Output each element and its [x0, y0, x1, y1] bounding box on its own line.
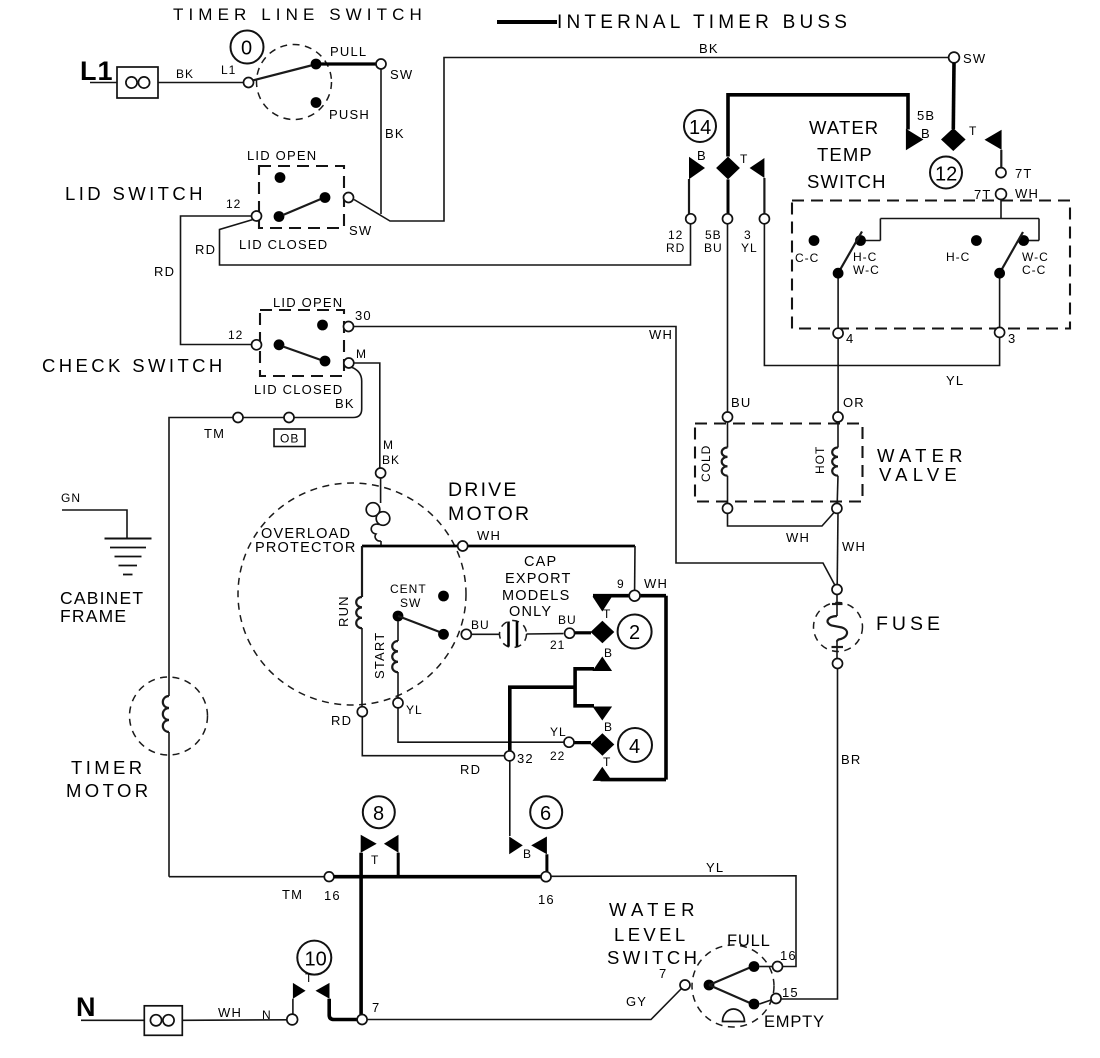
svg-text:2: 2 — [629, 622, 640, 644]
blade to EMPTY — [709, 985, 750, 1003]
svg-text:22: 22 — [550, 749, 565, 763]
drive motor enclosure — [238, 483, 466, 705]
wire YL bus to water level 16 — [551, 876, 796, 967]
svg-text:7T: 7T — [1015, 166, 1033, 181]
terminal 15 (water level) — [760, 1000, 772, 1004]
svg-text:LID CLOSED: LID CLOSED — [239, 237, 328, 252]
wire WH valve to fuse node — [836, 514, 839, 585]
wire to terminal 4 — [837, 279, 839, 329]
svg-text:LID OPEN: LID OPEN — [273, 295, 343, 310]
svg-text:15: 15 — [782, 985, 799, 1000]
svg-text:6: 6 — [540, 803, 551, 825]
ground GN / cabinet frame — [61, 491, 152, 575]
wire SW to contact 12 (timer buss) — [951, 63, 955, 129]
svg-text:YL: YL — [741, 241, 758, 255]
svg-text:VALVE: VALVE — [879, 464, 962, 485]
connector OB — [284, 413, 294, 423]
terminal 5B BU — [723, 214, 733, 224]
lid open contact — [275, 172, 286, 183]
temp switch blade (left) — [838, 232, 862, 274]
svg-text:WH: WH — [842, 539, 866, 554]
svg-text:PROTECTOR: PROTECTOR — [255, 540, 357, 556]
svg-text:BU: BU — [731, 395, 751, 410]
svg-text:BU: BU — [558, 613, 577, 627]
svg-text:B: B — [697, 148, 707, 163]
svg-text:RD: RD — [154, 264, 175, 279]
timer contact 14 — [684, 110, 716, 142]
contact W-C/C-C (right) — [1018, 235, 1029, 246]
timer contact 2 — [618, 615, 652, 649]
svg-text:7: 7 — [372, 1000, 380, 1015]
connector plug on L1 lead — [117, 67, 158, 98]
svg-text:HOT: HOT — [813, 446, 827, 474]
svg-text:B: B — [523, 847, 532, 861]
wire timer motor to bus — [168, 732, 170, 877]
svg-text:WATER: WATER — [877, 445, 968, 466]
svg-text:TM: TM — [204, 426, 225, 441]
svg-text:TEMP: TEMP — [817, 144, 873, 165]
buss contact 14 to contact 12 — [728, 95, 908, 157]
overload protector — [366, 478, 390, 546]
svg-text:WH: WH — [1015, 186, 1039, 201]
svg-text:L1: L1 — [80, 56, 114, 86]
water valve enclosure — [695, 424, 863, 502]
svg-text:14: 14 — [689, 117, 711, 139]
svg-text:SW: SW — [400, 596, 421, 610]
wire L1 to switch — [90, 82, 117, 84]
svg-text:T: T — [969, 124, 977, 138]
svg-text:H-C: H-C — [853, 250, 877, 264]
contact EMPTY — [749, 999, 760, 1010]
bus TM wire — [169, 876, 325, 878]
contact PULL — [311, 59, 322, 70]
wire RD lid 12 to check switch 12 — [181, 216, 252, 345]
svg-text:12: 12 — [935, 164, 957, 186]
timer contact 0 symbol — [231, 31, 264, 64]
svg-text:START: START — [372, 632, 387, 679]
check switch enclosure — [260, 310, 344, 376]
timer contact 8 — [363, 796, 395, 828]
bus (internal timer buss) — [334, 875, 541, 879]
svg-text:CENT: CENT — [390, 582, 427, 596]
svg-text:WATER: WATER — [609, 899, 700, 920]
svg-text:YL: YL — [706, 860, 724, 875]
hot solenoid — [813, 422, 838, 504]
svg-text:0: 0 — [241, 38, 252, 60]
node M BK — [376, 468, 386, 478]
svg-text:C-C: C-C — [1022, 263, 1046, 277]
svg-text:GY: GY — [626, 994, 647, 1009]
svg-text:COLD: COLD — [699, 445, 713, 482]
svg-text:3: 3 — [1008, 331, 1016, 346]
svg-text:PULL: PULL — [330, 44, 367, 59]
svg-text:WH: WH — [477, 528, 501, 543]
svg-text:16: 16 — [324, 888, 341, 903]
contact H-C (right, open) — [971, 235, 982, 246]
svg-text:SW: SW — [390, 67, 413, 82]
svg-text:BU: BU — [471, 618, 490, 632]
svg-text:CAP: CAP — [524, 554, 557, 570]
contact 2 B stationary — [593, 657, 613, 672]
terminal 21 BU — [565, 628, 575, 638]
wire BK lid switch to timer SW node (top bus) — [354, 58, 949, 222]
contact FULL — [749, 961, 760, 972]
connector TM 16 — [324, 872, 334, 882]
contact 14 terminal legs — [688, 179, 690, 214]
contact 4 B stationary — [593, 707, 613, 721]
svg-text:12: 12 — [228, 328, 243, 342]
lid switch enclosure — [259, 166, 344, 228]
svg-text:16: 16 — [538, 892, 555, 907]
contact 12 triangles and diamond — [906, 129, 924, 150]
svg-text:MOTOR: MOTOR — [448, 503, 531, 525]
terminal 22 YL — [564, 737, 574, 747]
run winding — [336, 546, 362, 707]
svg-text:WH: WH — [649, 327, 673, 342]
node WH above fuse — [832, 585, 842, 595]
node SW (timer) — [949, 52, 960, 63]
buss bracket joining B of 2 and 4 — [575, 669, 594, 706]
contact 2 T stationary — [593, 597, 613, 612]
terminal 30 — [344, 322, 354, 332]
terminal 16 (water level) — [760, 966, 773, 968]
svg-text:7: 7 — [659, 966, 667, 981]
svg-text:ONLY: ONLY — [509, 604, 552, 620]
wire BU terminal 5B to water valve — [727, 224, 729, 412]
svg-text:YL: YL — [550, 725, 567, 739]
svg-text:TIMER LINE SWITCH: TIMER LINE SWITCH — [173, 5, 427, 24]
svg-text:12: 12 — [226, 197, 241, 211]
fuse element — [828, 595, 848, 659]
wire N lead — [81, 1019, 144, 1021]
svg-text:BU: BU — [704, 241, 723, 255]
svg-text:T: T — [603, 607, 611, 621]
svg-text:9: 9 — [617, 577, 625, 591]
svg-text:GN: GN — [61, 491, 81, 505]
svg-text:RD: RD — [666, 241, 685, 255]
node N — [287, 1014, 298, 1025]
svg-text:SWITCH: SWITCH — [807, 171, 887, 192]
svg-text:W-C: W-C — [1022, 250, 1049, 264]
timer motor coil — [163, 696, 169, 732]
svg-text:OB: OB — [280, 432, 299, 446]
temp switch internal wiring — [861, 219, 1040, 241]
node 9 — [629, 590, 640, 601]
svg-text:C-C: C-C — [795, 251, 819, 265]
svg-text:8: 8 — [373, 803, 384, 825]
svg-text:FRAME: FRAME — [60, 606, 127, 626]
svg-text:4: 4 — [629, 736, 640, 758]
wire GY node 7 to water level — [367, 989, 681, 1020]
contact 10 triangles — [293, 983, 306, 999]
svg-text:32: 32 — [517, 751, 534, 766]
svg-text:OR: OR — [843, 395, 865, 410]
svg-text:BK: BK — [335, 396, 355, 411]
svg-text:H-C: H-C — [946, 250, 970, 264]
temp switch blade (right) — [1000, 232, 1023, 273]
svg-text:TM: TM — [282, 887, 303, 902]
svg-text:M: M — [383, 438, 394, 452]
svg-text:SW: SW — [963, 51, 986, 66]
svg-text:PUSH: PUSH — [329, 107, 370, 122]
lid open contact (check) — [317, 320, 328, 331]
wire WH cold to hot — [728, 513, 835, 527]
contact 6 triangles — [509, 837, 523, 855]
svg-text:LEVEL: LEVEL — [614, 924, 689, 945]
svg-text:BK: BK — [699, 41, 719, 56]
svg-text:RD: RD — [460, 762, 481, 777]
wire to terminal 3 — [999, 279, 1001, 328]
svg-text:RD: RD — [331, 713, 352, 728]
wire WH check 30 to fuse node — [354, 327, 835, 585]
contact 10 right leg to node 7 — [329, 999, 356, 1020]
timer contact 10 — [297, 941, 331, 975]
svg-text:CHECK SWITCH: CHECK SWITCH — [42, 355, 226, 376]
wire RD lid 12 to timer terminal 12RD — [220, 220, 691, 266]
contacts 2/4 block (internal timer buss) — [593, 596, 666, 780]
wire 32 to contact 6 — [509, 761, 511, 836]
svg-text:BK: BK — [385, 126, 405, 141]
switch blade L1-PULL — [253, 66, 312, 81]
terminal SW (lid switch) — [344, 193, 354, 203]
svg-text:B: B — [921, 126, 931, 141]
node RD (motor) — [357, 707, 367, 717]
node SW — [376, 59, 386, 69]
water temp switch enclosure — [792, 201, 1070, 329]
connector TM — [233, 413, 243, 423]
node YL (motor) — [393, 698, 403, 708]
wire PULL to SW — [321, 62, 376, 65]
buss wire contact 8 to node 7 — [359, 853, 363, 1015]
connector plug on N lead — [144, 1006, 182, 1036]
svg-text:WH: WH — [218, 1005, 242, 1020]
wire OR temp switch 4 to water valve — [837, 338, 839, 412]
wire M to drive motor — [354, 363, 380, 468]
svg-text:LID CLOSED: LID CLOSED — [254, 382, 343, 397]
svg-text:YL: YL — [406, 703, 423, 717]
start winding — [372, 621, 398, 698]
svg-text:3: 3 — [744, 228, 752, 242]
lid closed contact — [320, 192, 331, 203]
svg-text:B: B — [604, 646, 613, 660]
contact 2 movable (diamond) — [591, 621, 615, 643]
svg-text:MOTOR: MOTOR — [66, 780, 152, 801]
centrifugal switch — [390, 582, 490, 640]
svg-text:BK: BK — [176, 67, 194, 81]
svg-text:EMPTY: EMPTY — [764, 1013, 825, 1031]
wire WH node 9 from motor line — [634, 546, 636, 591]
svg-text:T: T — [740, 152, 748, 166]
svg-text:TIMER: TIMER — [71, 757, 146, 778]
svg-text:5B: 5B — [705, 228, 722, 242]
svg-text:FUSE: FUSE — [876, 613, 944, 635]
svg-text:EXPORT: EXPORT — [505, 571, 572, 587]
svg-text:WH: WH — [786, 530, 810, 545]
contact 10 left leg to N — [292, 999, 294, 1014]
check switch blade — [283, 347, 321, 361]
svg-text:WH: WH — [644, 576, 668, 591]
contact 4 T stationary — [593, 767, 613, 781]
svg-text:10: 10 — [305, 949, 327, 971]
svg-text:RD: RD — [195, 242, 216, 257]
capacitor C1 (export models) — [471, 621, 563, 648]
timer line switch enclosure (dashed) — [257, 45, 332, 120]
svg-text:SWITCH: SWITCH — [607, 947, 700, 968]
node WH (motor) — [458, 541, 468, 551]
buss wire terminal 32 to bracket — [510, 687, 575, 751]
lid closed contact (check) — [320, 356, 331, 367]
svg-text:LID SWITCH: LID SWITCH — [65, 183, 206, 204]
svg-text:B: B — [604, 720, 613, 734]
fuse enclosure — [814, 603, 863, 652]
svg-text:MODELS: MODELS — [502, 588, 570, 604]
contact C-C (left, open) — [809, 235, 820, 246]
terminal 12 RD — [686, 214, 696, 224]
connector 7T — [996, 168, 1006, 178]
legend: internal timer buss — [497, 12, 851, 33]
svg-text:RUN: RUN — [336, 595, 351, 627]
svg-text:N: N — [262, 1008, 272, 1022]
svg-text:WATER: WATER — [809, 117, 879, 138]
contact 14 triangles and diamond — [689, 157, 705, 179]
wire BR fuse to terminal 15 — [782, 669, 838, 1000]
svg-text:CABINET: CABINET — [60, 588, 144, 608]
blade to FULL — [709, 968, 750, 986]
terminal M — [344, 358, 354, 368]
contact 8 triangles — [361, 835, 377, 853]
svg-text:T: T — [371, 853, 379, 867]
timer contact 4 — [618, 728, 652, 762]
svg-text:FULL: FULL — [727, 932, 771, 950]
wire TM check M to timer motor — [169, 367, 362, 696]
svg-text:21: 21 — [550, 638, 565, 652]
wire motor top (WH) — [362, 545, 635, 548]
svg-text:INTERNAL TIMER BUSS: INTERNAL TIMER BUSS — [557, 12, 851, 33]
svg-text:M: M — [356, 347, 367, 361]
wire YL to terminal 22 — [398, 708, 564, 742]
svg-text:W-C: W-C — [853, 263, 880, 277]
svg-text:T: T — [603, 755, 611, 769]
svg-text:BK: BK — [382, 453, 400, 467]
wire RD to terminal 32 — [362, 717, 504, 756]
timer contact 6 — [530, 796, 562, 828]
contact PUSH — [311, 97, 322, 108]
svg-text:30: 30 — [355, 308, 372, 323]
terminal 3 YL — [759, 214, 769, 224]
svg-text:4: 4 — [846, 331, 854, 346]
svg-text:N: N — [76, 992, 97, 1022]
pressure dome — [723, 1009, 745, 1022]
lid switch blade — [283, 199, 322, 216]
timer motor enclosure — [130, 677, 208, 755]
svg-text:BR: BR — [841, 752, 861, 767]
svg-text:SW: SW — [349, 223, 372, 238]
svg-text:L1: L1 — [221, 63, 236, 77]
node 16 — [541, 872, 551, 882]
cold solenoid — [699, 422, 728, 504]
svg-text:5B: 5B — [917, 108, 935, 123]
contact H-C/W-C (left) — [855, 235, 866, 246]
timer contact 12 — [930, 157, 962, 189]
svg-text:12: 12 — [668, 228, 683, 242]
node 32 — [505, 751, 515, 761]
svg-text:LID OPEN: LID OPEN — [247, 148, 317, 163]
contact 12 leg to 7T — [1000, 150, 1002, 168]
terminal GY — [680, 980, 690, 990]
water level pivot — [704, 980, 715, 991]
water level switch enclosure — [692, 945, 774, 1027]
svg-text:T: T — [305, 971, 313, 985]
contact 4 movable (diamond) — [591, 733, 615, 755]
svg-text:DRIVE: DRIVE — [448, 479, 519, 501]
svg-text:16: 16 — [780, 948, 797, 963]
svg-text:YL: YL — [946, 373, 964, 388]
node 7 — [357, 1015, 367, 1025]
wire YL terminal 3YL to temp switch 3 — [764, 224, 999, 366]
